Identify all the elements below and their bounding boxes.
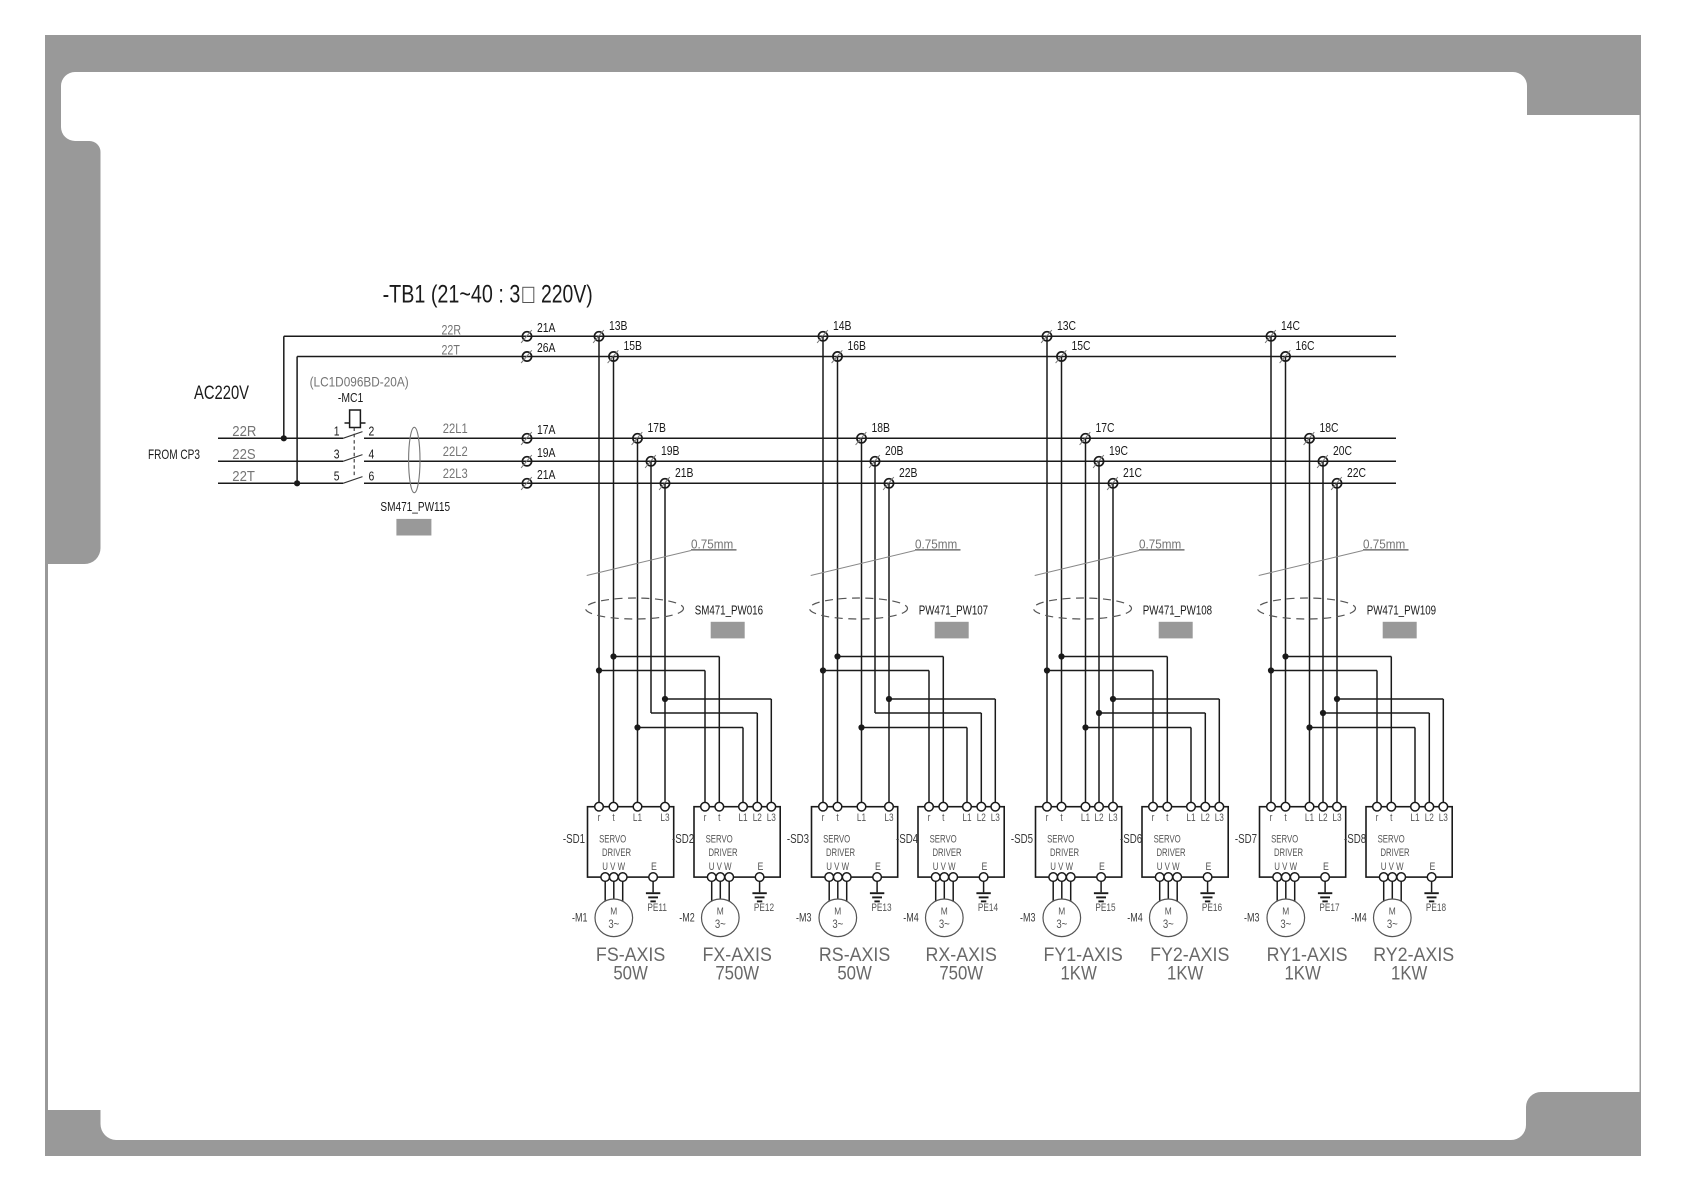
wire 22T phase in — [218, 467, 343, 484]
svg-text:19C: 19C — [1109, 444, 1129, 458]
designator -SD7 — [1235, 833, 1257, 846]
svg-text:0.75mm: 0.75mm — [691, 537, 733, 552]
svg-text:L3: L3 — [1108, 812, 1117, 824]
group 4 tap terminals — [1265, 319, 1366, 490]
wire L1 branch to SD4 — [862, 728, 968, 807]
contactor MC1 coil — [345, 410, 366, 428]
svg-text:t: t — [718, 812, 721, 824]
cable label SM471_PW016 — [695, 604, 763, 618]
svg-text:17C: 17C — [1096, 421, 1116, 435]
designator -M4 — [1127, 912, 1143, 924]
svg-text:E: E — [1430, 861, 1436, 873]
contactor MC1 designator — [338, 391, 363, 405]
svg-text:750W: 750W — [715, 962, 760, 983]
value label FY2-AXIS 1KW — [1150, 943, 1229, 984]
value label FX-AXIS 750W — [703, 943, 772, 984]
svg-text:M: M — [1389, 906, 1396, 918]
svg-text:L1: L1 — [962, 812, 971, 824]
cable color swatch SM471_PW016 — [711, 622, 745, 639]
wire L1 drop 18C — [1309, 438, 1311, 806]
motor M3 (RY1-AXIS) — [1267, 881, 1305, 936]
designator -M4 — [1351, 912, 1367, 924]
pin 1 — [334, 425, 340, 439]
svg-text:PW471_PW109: PW471_PW109 — [1367, 604, 1436, 618]
servo driver U SD4 — [918, 802, 1004, 881]
value label FS-AXIS 50W — [596, 943, 665, 984]
wire r drop 13B — [598, 336, 600, 806]
svg-text:L1: L1 — [633, 812, 642, 824]
svg-text:E: E — [1206, 861, 1212, 873]
svg-text:SM471_PW115: SM471_PW115 — [380, 500, 450, 515]
svg-text:15C: 15C — [1072, 339, 1092, 353]
wire 22L1 — [364, 421, 1396, 438]
svg-text:SERVO: SERVO — [1047, 833, 1074, 846]
wire 22T drop to top bus — [296, 357, 298, 484]
svg-text:-SD4: -SD4 — [896, 833, 918, 846]
svg-text:50W: 50W — [613, 962, 648, 983]
svg-text:L2: L2 — [753, 812, 762, 824]
junction L2 — [1320, 710, 1326, 716]
motor M4 (RY2-AXIS) — [1374, 881, 1412, 936]
svg-text:3~: 3~ — [1163, 918, 1174, 931]
junction L3 — [886, 696, 892, 702]
svg-text:E: E — [758, 861, 764, 873]
svg-text:PE12: PE12 — [754, 902, 774, 914]
wire 22R phase in — [218, 422, 343, 439]
junction L1 — [1082, 724, 1088, 730]
svg-text:L1: L1 — [1081, 812, 1090, 824]
svg-text:L3: L3 — [1439, 812, 1448, 824]
wire 22R top bus — [284, 322, 1396, 338]
svg-text:U V W: U V W — [1050, 861, 1073, 874]
wire 22L2 — [364, 444, 1396, 462]
servo driver U SD8 — [1366, 802, 1452, 881]
svg-text:M: M — [610, 906, 617, 918]
svg-text:M: M — [941, 906, 948, 918]
svg-text:22S: 22S — [232, 445, 255, 462]
svg-text:PW471_PW108: PW471_PW108 — [1143, 604, 1212, 618]
svg-text:-M3: -M3 — [1020, 912, 1036, 924]
ground PE12 — [752, 881, 774, 914]
wire t drop 15B — [613, 357, 615, 807]
svg-text:M: M — [1282, 906, 1289, 918]
cable color swatch PW471_PW107 — [935, 622, 969, 639]
terminal 19A (TB1 row A) — [521, 446, 556, 468]
svg-text:M: M — [1165, 906, 1172, 918]
wire L3 drop 21B — [664, 483, 666, 806]
svg-text:3~: 3~ — [608, 918, 619, 931]
svg-text:M: M — [717, 906, 724, 918]
svg-text:-SD6: -SD6 — [1120, 833, 1142, 846]
svg-text:26A: 26A — [537, 341, 556, 355]
wire L2 branch to SD8 — [1323, 713, 1429, 807]
designator -SD4 — [896, 833, 918, 846]
svg-text:22L2: 22L2 — [443, 444, 468, 459]
svg-text:0.75mm: 0.75mm — [1363, 537, 1405, 552]
contact 5-6 of MC1 — [343, 477, 363, 484]
cable color swatch PW471_PW109 — [1383, 622, 1417, 639]
svg-text:PE17: PE17 — [1319, 902, 1339, 914]
svg-text:3: 3 — [334, 448, 340, 462]
svg-text:-SD7: -SD7 — [1235, 833, 1257, 846]
cable wrap ellipse SM471_PW016 — [586, 598, 684, 619]
wire L3 drop 21C — [1112, 483, 1114, 806]
ground PE15 — [1094, 881, 1116, 914]
designator -SD5 — [1011, 833, 1033, 846]
servo driver U SD6 — [1142, 802, 1228, 881]
node FROM CP3 label — [148, 447, 200, 463]
ground PE13 — [870, 881, 892, 914]
pin 4 — [369, 448, 375, 462]
svg-text:SERVO: SERVO — [599, 833, 626, 846]
svg-text:21C: 21C — [1123, 466, 1143, 480]
svg-text:1KW: 1KW — [1284, 962, 1321, 983]
svg-text:22R: 22R — [232, 422, 256, 439]
svg-text:3~: 3~ — [1056, 918, 1067, 931]
ground PE17 — [1318, 881, 1340, 914]
wire r drop 13C — [1046, 336, 1048, 806]
svg-text:SERVO: SERVO — [930, 833, 957, 846]
junction r — [820, 667, 826, 673]
svg-text:L3: L3 — [991, 812, 1000, 824]
pin 6 — [369, 470, 375, 484]
svg-text:-SD1: -SD1 — [563, 833, 585, 846]
terminal 26A (TB1 row A) — [521, 341, 556, 363]
wire r branch to SD2 — [599, 671, 705, 807]
svg-text:L3: L3 — [1215, 812, 1224, 824]
svg-text:U V W: U V W — [933, 861, 956, 874]
svg-text:-SD5: -SD5 — [1011, 833, 1033, 846]
svg-text:SM471_PW016: SM471_PW016 — [695, 604, 763, 618]
motor M2 (FX-AXIS) — [702, 881, 740, 936]
svg-text:DRIVER: DRIVER — [933, 847, 962, 860]
svg-text:PW471_PW107: PW471_PW107 — [919, 604, 988, 618]
svg-text:t: t — [612, 812, 615, 824]
svg-text:E: E — [982, 861, 988, 873]
junction L1 — [1306, 724, 1312, 730]
junction r — [1268, 667, 1274, 673]
wire L3 branch to SD4 — [889, 699, 995, 807]
cable wrap ellipse PW471_PW107 — [810, 598, 908, 619]
value label RX-AXIS 750W — [926, 943, 997, 984]
wire r branch to SD8 — [1271, 671, 1377, 807]
designator -SD2 — [672, 833, 694, 846]
wire L3 branch to SD8 — [1337, 699, 1443, 807]
wire 22R drop to top bus — [283, 336, 285, 438]
junction L3 — [1110, 696, 1116, 702]
svg-text:DRIVER: DRIVER — [602, 847, 631, 860]
svg-text:-MC1: -MC1 — [338, 391, 363, 405]
svg-text:E: E — [651, 861, 657, 873]
value label RS-AXIS 50W — [819, 943, 890, 984]
svg-text:3~: 3~ — [832, 918, 843, 931]
servo driver U SD2 — [694, 802, 780, 881]
svg-text:-SD3: -SD3 — [787, 833, 809, 846]
wire L2 drop 20C — [1322, 461, 1324, 806]
svg-text:-SD8: -SD8 — [1344, 833, 1366, 846]
wire L1 drop 18B — [861, 438, 863, 806]
wire L3 drop 22C — [1336, 483, 1338, 806]
svg-text:t: t — [836, 812, 839, 824]
svg-text:14B: 14B — [833, 319, 852, 333]
svg-text:SERVO: SERVO — [823, 833, 850, 846]
wire L2 drop 19B — [650, 461, 652, 713]
svg-text:AC220V: AC220V — [194, 381, 249, 404]
junction r — [1044, 667, 1050, 673]
wire L2 drop 19C — [1098, 461, 1100, 806]
svg-text:(LC1D096BD-20A): (LC1D096BD-20A) — [310, 375, 409, 390]
svg-text:21A: 21A — [537, 321, 556, 335]
svg-text:DRIVER: DRIVER — [1274, 847, 1303, 860]
wire t drop 16B — [837, 357, 839, 807]
svg-text:20B: 20B — [885, 444, 904, 458]
wire L3 branch to SD2 — [665, 699, 771, 807]
wire L2 branch to SD6 — [1099, 713, 1205, 807]
svg-text:U V W: U V W — [602, 861, 625, 874]
designator -SD1 — [563, 833, 585, 846]
svg-text:SERVO: SERVO — [1271, 833, 1298, 846]
designator -M3 — [796, 912, 812, 924]
wire L2 drop 20B — [874, 461, 876, 713]
wire t branch to SD4 — [838, 657, 944, 807]
wire size note 0.75mm (group 4) — [1259, 537, 1409, 576]
svg-text:L3: L3 — [660, 812, 669, 824]
svg-text:DRIVER: DRIVER — [709, 847, 738, 860]
svg-text:L3: L3 — [1332, 812, 1341, 824]
svg-text:DRIVER: DRIVER — [826, 847, 855, 860]
svg-text:14C: 14C — [1281, 319, 1301, 333]
junction r — [596, 667, 602, 673]
group 2 tap terminals — [817, 319, 918, 490]
svg-text:22B: 22B — [899, 466, 918, 480]
svg-text:L1: L1 — [738, 812, 747, 824]
junction t — [1282, 653, 1288, 659]
motor M1 (FS-AXIS) — [595, 881, 633, 936]
svg-text:t: t — [1060, 812, 1063, 824]
cable color swatch SM471_PW115 — [396, 519, 431, 536]
svg-text:19B: 19B — [661, 444, 680, 458]
wire r drop 14C — [1270, 336, 1272, 806]
wire 22T top bus — [297, 342, 1396, 358]
junction t — [1058, 653, 1064, 659]
svg-text:U V W: U V W — [1381, 861, 1404, 874]
cable label SM471_PW115 — [380, 500, 450, 515]
svg-text:-TB1 (21~40 : 3: -TB1 (21~40 : 3 — [383, 280, 521, 308]
pin 2 — [369, 425, 375, 439]
svg-text:19A: 19A — [537, 446, 556, 460]
svg-text:PE13: PE13 — [871, 902, 891, 914]
svg-text:SERVO: SERVO — [1378, 833, 1405, 846]
designator -M2 — [679, 912, 695, 924]
svg-text:18C: 18C — [1320, 421, 1340, 435]
terminal 21A (TB1 row A) — [521, 468, 556, 490]
ground PE14 — [976, 881, 998, 914]
svg-text:-M3: -M3 — [1244, 912, 1260, 924]
junction t — [834, 653, 840, 659]
svg-text:SERVO: SERVO — [706, 833, 733, 846]
cable label PW471_PW107 — [919, 604, 988, 618]
ground PE18 — [1424, 881, 1446, 914]
svg-text:U V W: U V W — [1274, 861, 1297, 874]
terminal 21A (TB1 row A) — [521, 321, 556, 343]
svg-text:t: t — [942, 812, 945, 824]
designator -SD6 — [1120, 833, 1142, 846]
svg-text:22C: 22C — [1347, 466, 1367, 480]
svg-text:L2: L2 — [977, 812, 986, 824]
svg-text:20C: 20C — [1333, 444, 1353, 458]
svg-text:-M2: -M2 — [679, 912, 695, 924]
svg-text:1KW: 1KW — [1391, 962, 1428, 983]
svg-text:-M4: -M4 — [903, 912, 919, 924]
svg-text:0.75mm: 0.75mm — [915, 537, 957, 552]
contact 3-4 of MC1 — [343, 455, 363, 462]
junction L2 — [1096, 710, 1102, 716]
wire r drop 14B — [822, 336, 824, 806]
wire t drop 16C — [1285, 357, 1287, 807]
svg-text:22T: 22T — [442, 342, 461, 358]
svg-text:PE16: PE16 — [1202, 902, 1222, 914]
svg-text:L2: L2 — [1201, 812, 1210, 824]
wire r branch to SD6 — [1047, 671, 1153, 807]
svg-text:PE14: PE14 — [978, 902, 999, 914]
wire t branch to SD6 — [1062, 657, 1168, 807]
svg-text:PE15: PE15 — [1095, 902, 1115, 914]
wire t branch to SD2 — [614, 657, 720, 807]
designator -M3 — [1020, 912, 1036, 924]
svg-text:5: 5 — [334, 470, 340, 484]
svg-text:3~: 3~ — [1387, 918, 1398, 931]
motor M4 (FY2-AXIS) — [1150, 881, 1188, 936]
svg-text:22L1: 22L1 — [443, 421, 468, 436]
svg-text:t: t — [1390, 812, 1393, 824]
svg-text:L1: L1 — [1305, 812, 1314, 824]
svg-text:M: M — [1058, 906, 1065, 918]
svg-text:220V): 220V) — [541, 280, 593, 308]
junction L3 — [662, 696, 668, 702]
svg-text:17B: 17B — [648, 421, 667, 435]
servo driver U SD1 — [588, 802, 674, 881]
svg-text:-SD2: -SD2 — [672, 833, 694, 846]
svg-text:13C: 13C — [1057, 319, 1077, 333]
svg-text:3~: 3~ — [1280, 918, 1291, 931]
group 1 tap terminals — [593, 319, 694, 490]
wire L1 drop 17B — [637, 438, 639, 806]
svg-text:750W: 750W — [939, 962, 984, 983]
contactor MC1 part number (LC1D096BD-20A) — [310, 375, 409, 390]
motor M3 (FY1-AXIS) — [1043, 881, 1081, 936]
svg-text:16B: 16B — [848, 339, 867, 353]
cable color swatch PW471_PW108 — [1159, 622, 1193, 639]
svg-text:-M1: -M1 — [572, 912, 588, 924]
servo driver U SD7 — [1260, 802, 1346, 881]
pin 3 — [334, 448, 340, 462]
svg-text:3~: 3~ — [939, 918, 950, 931]
wire r branch to SD4 — [823, 671, 929, 807]
svg-text:22L3: 22L3 — [443, 466, 468, 481]
wire 22S phase in — [218, 445, 343, 462]
svg-text:21A: 21A — [537, 468, 556, 482]
junction 22T tap — [294, 480, 300, 486]
svg-text:L1: L1 — [1186, 812, 1195, 824]
svg-text:50W: 50W — [837, 962, 872, 983]
svg-text:L2: L2 — [1318, 812, 1327, 824]
wire L1 branch to SD6 — [1086, 728, 1192, 807]
wire t branch to SD8 — [1286, 657, 1392, 807]
title -TB1 (21~40 : 3ph 220V) — [383, 280, 593, 308]
svg-text:PE11: PE11 — [647, 902, 667, 914]
svg-text:L2: L2 — [1094, 812, 1103, 824]
contact 1-2 of MC1 — [343, 432, 363, 439]
value label FY1-AXIS 1KW — [1043, 943, 1122, 984]
wire L3 drop 22B — [888, 483, 890, 806]
svg-text:17A: 17A — [537, 423, 556, 437]
ground PE11 — [646, 881, 667, 914]
value label RY2-AXIS 1KW — [1373, 943, 1454, 984]
svg-text:0.75mm: 0.75mm — [1139, 537, 1181, 552]
servo driver U SD3 — [812, 802, 898, 881]
junction 22R tap — [281, 435, 287, 441]
svg-text:22R: 22R — [442, 322, 462, 338]
wire t drop 15C — [1061, 357, 1063, 807]
contactor MC1 linkage (dashed) — [353, 428, 355, 478]
svg-text:1: 1 — [334, 425, 340, 439]
svg-text:18B: 18B — [872, 421, 891, 435]
cable label PW471_PW109 — [1367, 604, 1436, 618]
svg-text:L1: L1 — [1410, 812, 1419, 824]
svg-text:1KW: 1KW — [1060, 962, 1097, 983]
svg-text:3~: 3~ — [715, 918, 726, 931]
motor M3 (RS-AXIS) — [819, 881, 857, 936]
cable wrap ellipse PW471_PW109 — [1258, 598, 1356, 619]
svg-text:6: 6 — [369, 470, 375, 484]
designator -M4 — [903, 912, 919, 924]
svg-text:13B: 13B — [609, 319, 628, 333]
svg-text:U V W: U V W — [826, 861, 849, 874]
svg-text:E: E — [875, 861, 881, 873]
wire size note 0.75mm (group 1) — [587, 537, 737, 576]
svg-text:21B: 21B — [675, 466, 694, 480]
svg-text:4: 4 — [369, 448, 375, 462]
svg-text:-M4: -M4 — [1351, 912, 1367, 924]
wire L1 branch to SD2 — [638, 728, 744, 807]
svg-text:16C: 16C — [1296, 339, 1316, 353]
svg-text:FROM CP3: FROM CP3 — [148, 447, 200, 463]
svg-text:t: t — [1166, 812, 1169, 824]
designator -M3 — [1244, 912, 1260, 924]
svg-text:DRIVER: DRIVER — [1157, 847, 1186, 860]
svg-text:SERVO: SERVO — [1154, 833, 1181, 846]
cable label PW471_PW108 — [1143, 604, 1212, 618]
svg-text:L2: L2 — [1425, 812, 1434, 824]
svg-text:2: 2 — [369, 425, 375, 439]
wire L2 branch to SD2 — [651, 713, 757, 807]
pin 5 — [334, 470, 340, 484]
svg-text:-M3: -M3 — [796, 912, 812, 924]
svg-text:U V W: U V W — [709, 861, 732, 874]
value label RY1-AXIS 1KW — [1267, 943, 1348, 984]
group 3 tap terminals — [1041, 319, 1142, 490]
cable wrap ellipse PW471_PW108 — [1034, 598, 1132, 619]
svg-text:-M4: -M4 — [1127, 912, 1143, 924]
terminal 17A (TB1 row A) — [521, 423, 556, 445]
svg-text:U V W: U V W — [1157, 861, 1180, 874]
ground PE16 — [1200, 881, 1222, 914]
svg-text:DRIVER: DRIVER — [1050, 847, 1079, 860]
wire L2 branch to SD4 — [875, 713, 981, 807]
junction L1 — [858, 724, 864, 730]
svg-text:E: E — [1099, 861, 1105, 873]
node AC220V label — [194, 381, 249, 404]
